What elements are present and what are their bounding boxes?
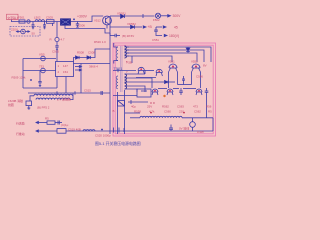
fuse F502 circle [155,13,160,18]
degauss plug component [26,101,32,106]
bottom row wire in box [125,112,140,114]
small box with X [118,101,125,107]
thermistor [55,37,59,41]
wire above labels [128,101,148,103]
arrow left protect [36,122,47,124]
inductor L502 [35,20,45,22]
short row 28.5V [109,33,111,36]
plus mark [73,18,75,20]
secondary winding lower [125,74,127,89]
svg-text:R508: R508 [77,51,84,55]
coil connections [30,96,34,101]
transistor V552 [192,64,200,68]
arc cluster 2 [156,69,162,72]
svg-text:L502: L502 [34,16,41,20]
leg bridge wire [178,84,192,86]
ground 2 [43,27,45,29]
wire mid 2 [144,70,154,72]
magenta highlight box (double border) [113,43,216,136]
secondary bus y53 [125,53,198,62]
fuse F501 [19,20,25,23]
error loop wires [22,59,24,89]
magenta box outer rect [113,43,216,136]
svg-text:C506: C506 [78,24,85,28]
transistor V551 [169,64,177,68]
tap components [144,70,146,74]
svg-text:0.4W: 0.4W [197,130,204,134]
ground 1 [32,27,34,29]
svg-text:8V: 8V [203,64,207,68]
diode VD505 [41,56,46,61]
capacitor C506 [77,22,79,24]
svg-text:C563: C563 [177,105,184,109]
svg-text:4.7k: 4.7k [149,109,155,113]
cap on bus right [170,125,172,129]
svg-text:220: 220 [179,109,184,113]
bridge rectifier [61,19,71,25]
svg-text:R516 1.0: R516 1.0 [94,40,106,44]
svg-text:图5-1 开关稳压电源电路图: 图5-1 开关稳压电源电路图 [95,141,141,146]
junction ticks [113,128,115,133]
switching transistor V512 [103,16,112,25]
svg-text:C519 40B: C519 40B [68,127,81,131]
output row1 diode VD551 [110,15,120,17]
svg-text:行推动: 行推动 [16,131,25,136]
diode cluster 2 [167,89,173,92]
secondary winding upper [125,46,127,58]
svg-text:C508: C508 [88,51,95,55]
capacitor drop 2 [44,22,46,25]
row4 arrow [156,31,162,35]
svg-text:154: 154 [63,70,68,74]
svg-text:V552: V552 [191,60,198,64]
svg-text:R5: R5 [45,117,49,121]
primary lower winding left [116,76,118,89]
svg-text:线圈: 线圈 [8,102,14,107]
svg-text:C515: C515 [84,89,91,93]
main vertical rail [109,16,111,131]
branch x57 from rail [56,22,58,38]
zigzag on bus [83,130,95,131]
resistor box R522 [47,121,55,124]
cap C505 [55,45,58,47]
svg-text:(B) 28.5V: (B) 28.5V [122,34,134,38]
svg-text:C505: C505 [52,50,59,54]
lower secondary taps [125,73,146,75]
svg-text:+300V: +300V [77,14,88,18]
box on bus [57,129,66,134]
relay box [137,89,151,97]
transformer core [120,46,122,92]
svg-text:733: 733 [39,65,44,69]
plus marks [30,79,32,81]
secondary bus y56 [125,56,173,62]
primary connections [114,43,118,47]
svg-text:V512: V512 [94,18,101,22]
svg-text:4.7: 4.7 [61,38,65,42]
svg-text:B: B [113,109,115,113]
tick on wire [56,91,58,94]
wire bridge to transistor [71,16,104,22]
wire IC right [74,63,111,65]
svg-text:R5: R5 [208,109,212,113]
svg-text:3866 4: 3866 4 [89,65,98,69]
svg-text:300V: 300V [173,14,182,18]
svg-text:7.5B: 7.5B [126,61,132,65]
red label box top-left [7,14,19,19]
svg-text:R509 120k: R509 120k [12,76,27,80]
svg-text:VD5: VD5 [39,53,45,57]
svg-text:45: 45 [174,26,178,30]
wire bottom mid [113,95,137,97]
primary winding left [116,47,118,61]
secondary bus y50 [125,50,205,62]
svg-text:C556: C556 [196,75,203,79]
wire IC bottom [65,77,67,94]
circle component bottom [190,122,196,128]
wire IC top to transformer primary [74,49,111,62]
filter block [47,20,55,24]
diode on wire 2 [87,56,91,59]
plus tick [101,129,103,131]
svg-text:C551: C551 [152,38,159,42]
bottom bus wire [36,130,213,132]
drop x132 [131,56,133,63]
vertical right mid [206,95,208,118]
wire AC top rail [11,21,60,23]
svg-text:0V 地线: 0V 地线 [179,126,189,131]
wire below mid [136,77,156,79]
svg-text:C562: C562 [194,109,201,113]
svg-text:行激励: 行激励 [16,121,25,126]
svg-text:C503: C503 [46,16,53,20]
AC arrows [17,31,21,33]
svg-text:473: 473 [193,105,198,109]
svg-text:(C)1μ: (C)1μ [61,123,69,127]
secondary bus y47 [125,47,212,62]
IC box [56,62,74,77]
svg-text:147: 147 [63,64,68,68]
svg-text:25V: 25V [147,105,152,109]
transformer bottom verticals [117,92,119,134]
cap mid 2 [206,88,208,91]
svg-text:180(V): 180(V) [169,34,179,38]
bus junction dots [127,46,128,47]
svg-text:220V: 220V [11,27,18,31]
svg-text:F502: F502 [153,18,160,22]
capacitor drop 1 [32,22,34,25]
svg-text:R56: R56 [206,105,212,109]
svg-text:R562: R562 [162,105,169,109]
cap branch in loop [39,71,41,82]
wire transistor to vertical rail [106,16,108,18]
diode cluster 3 [196,89,202,92]
mid wire [113,70,136,72]
diode VD507 [41,68,46,73]
svg-text:50: 50 [32,32,36,36]
svg-text:F501: F501 [18,16,25,20]
row3 cap cluster [155,27,157,30]
orange dot [163,95,165,97]
diode down on bus [187,47,189,48]
vertical x81 [80,64,82,94]
svg-text:C560: C560 [164,109,171,113]
svg-text:(B) PF5 2: (B) PF5 2 [37,105,50,109]
degauss zigzag row A [34,94,72,96]
cap mid 1 [180,88,182,91]
arrow row1 [161,15,168,17]
svg-text:1.4 深线圈: 1.4 深线圈 [57,97,71,102]
arc cluster 1 [138,67,144,70]
wire bridge bottom path [65,25,110,33]
dashed box AC source [10,27,40,37]
diode cluster 1 [152,89,158,92]
svg-text:C520 1000p: C520 1000p [95,134,111,138]
thermistor RT [27,20,30,23]
svg-text:V551: V551 [168,60,175,64]
AC source circle [21,29,26,34]
row1 cap tick [142,14,144,18]
svg-text:R: R [50,38,52,42]
diode on wire 1 [76,56,80,59]
vertical right [212,118,214,131]
arrow pair at pin [75,66,80,68]
red dots [150,112,152,114]
svg-text:+B: +B [148,25,153,29]
small cap between [183,76,185,79]
zigzag resistor long [140,116,182,118]
cap on wire [100,91,102,95]
legs down [168,72,170,88]
svg-text:40μ: 40μ [131,105,136,109]
degauss bus wire [28,92,110,94]
output row2 diode VD552 [110,26,130,28]
wire segments row [158,88,167,90]
degauss zigzag row B [36,98,70,100]
